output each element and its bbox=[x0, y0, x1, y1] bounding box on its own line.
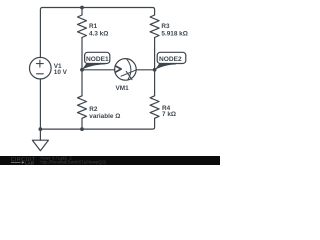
svg-text:variable Ω: variable Ω bbox=[89, 113, 120, 120]
wire voltmeter to node2 bbox=[136, 69, 155, 71]
resistor R2 bbox=[78, 96, 87, 129]
svg-text:7 kΩ: 7 kΩ bbox=[162, 111, 176, 118]
wire bottom rail bbox=[40, 118, 154, 129]
resistor R1 bbox=[78, 8, 87, 38]
logo LAB bbox=[11, 161, 21, 163]
svg-text:10 V: 10 V bbox=[54, 69, 68, 76]
svg-text:NODE2: NODE2 bbox=[159, 56, 182, 63]
voltmeter VM1 bbox=[115, 59, 137, 81]
wire top rail bbox=[40, 8, 154, 58]
junction dots bbox=[39, 6, 157, 131]
wire R1 to node1 junction bbox=[81, 38, 83, 96]
wire node1 to voltmeter bbox=[82, 69, 115, 71]
svg-text:NODE1: NODE1 bbox=[86, 56, 109, 63]
svg-text:VM1: VM1 bbox=[116, 85, 130, 92]
node NODE1 label bbox=[82, 52, 110, 70]
resistor R3 bbox=[150, 15, 159, 38]
svg-text:R3: R3 bbox=[161, 23, 170, 30]
resistor R4 bbox=[150, 96, 159, 119]
svg-text:4.3 kΩ: 4.3 kΩ bbox=[89, 30, 108, 37]
footer banner bbox=[0, 156, 220, 165]
svg-text:R1: R1 bbox=[89, 23, 98, 30]
svg-text:R2: R2 bbox=[89, 106, 98, 113]
wire R3 to node2 junction bbox=[154, 38, 156, 96]
svg-text:5.918 kΩ: 5.918 kΩ bbox=[161, 30, 187, 37]
ground bbox=[39, 129, 41, 140]
svg-text:http://circuitlab.com/c5TpShzw: http://circuitlab.com/c5TpShzwpQ22 bbox=[41, 160, 107, 165]
voltage source V1 bbox=[30, 57, 52, 79]
node NODE2 label bbox=[155, 52, 186, 70]
wire left branch bottom bbox=[39, 79, 41, 129]
svg-text:LAB: LAB bbox=[25, 160, 34, 165]
